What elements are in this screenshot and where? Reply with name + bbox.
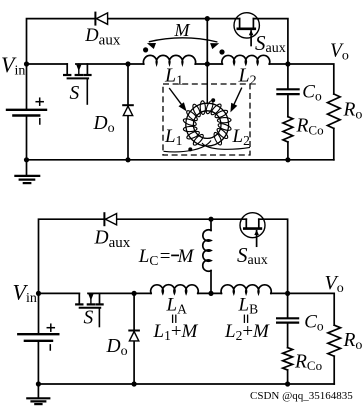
transistor Saux internals top — [238, 19, 255, 46]
switch Saux circle bottom — [240, 213, 265, 238]
wire mid rail S to Do (bottom ckt) — [88, 292, 151, 294]
svg-text:M: M — [174, 20, 191, 40]
dashed box around coupled inductor — [163, 84, 250, 155]
transistor Saux internals bottom — [244, 219, 261, 246]
diode Do top — [123, 64, 133, 160]
inductor LB — [221, 285, 271, 294]
wire top rail right segment down to Vo node — [253, 19, 288, 64]
svg-text:L2+M: L2+M — [224, 321, 270, 343]
svg-text:RCo: RCo — [294, 351, 322, 373]
svg-text:S: S — [84, 307, 94, 328]
toroid winding lead right — [202, 143, 250, 149]
battery Vin source bottom — [18, 324, 58, 384]
arrow from L2 label to toroid — [230, 88, 241, 113]
svg-text:Ro: Ro — [343, 330, 363, 353]
node Do bottom junction bottom ckt — [132, 381, 137, 386]
toroid core with windings — [186, 103, 229, 146]
node Do top junction bottom — [132, 291, 137, 296]
svg-text:S: S — [70, 83, 80, 104]
toroid polarity dot top — [211, 98, 215, 102]
toroid polarity dot bottom-left — [188, 147, 192, 151]
capacitor Co top — [277, 64, 298, 117]
wire between L1 and L2 — [195, 63, 222, 65]
svg-text:=: = — [160, 246, 171, 267]
node Co bottom junction bottom ckt — [285, 381, 290, 386]
ground bottom — [27, 384, 49, 404]
node battery-ground junction bottom — [36, 381, 41, 386]
node Vin junction bottom — [36, 291, 41, 296]
svg-text:Co: Co — [302, 82, 322, 104]
arrow from L1 label to toroid — [169, 88, 186, 111]
svg-text:Daux: Daux — [84, 26, 121, 49]
wire mid rail with inductors L1 L2 (top) — [76, 63, 144, 65]
node Do top junction — [125, 61, 130, 66]
svg-text:Daux: Daux — [94, 228, 131, 252]
wire bottom rail (bottom ckt) — [38, 383, 334, 385]
svg-text:M: M — [177, 246, 195, 267]
svg-text:Vin: Vin — [1, 52, 25, 79]
switch Saux circle top — [234, 13, 259, 38]
wire Vo rail to Ro branch top — [288, 64, 334, 94]
svg-text:Vo: Vo — [330, 41, 349, 64]
mutual inductance arrow M (top) — [147, 38, 219, 49]
svg-text:Vo: Vo — [325, 272, 344, 296]
node LC top junction — [208, 217, 213, 222]
resistor RCo bottom — [283, 348, 293, 384]
svg-text:L1: L1 — [164, 64, 183, 88]
node top-rail riser junction — [205, 16, 210, 21]
svg-text:Do: Do — [93, 113, 115, 136]
svg-text:LA: LA — [166, 294, 188, 316]
svg-text:Do: Do — [106, 336, 128, 359]
inductor LA — [151, 285, 199, 294]
wire top rail left + left riser — [27, 19, 240, 109]
svg-text:L2: L2 — [238, 64, 257, 88]
inductor LC vertical — [203, 219, 211, 293]
toroid winding lead left — [164, 141, 212, 152]
inductor L2 top — [222, 55, 270, 64]
svg-text:RCo: RCo — [296, 116, 324, 138]
node Vo junction bottom — [285, 291, 290, 296]
polarity dot L1 — [143, 47, 148, 52]
svg-text:Co: Co — [304, 311, 324, 333]
svg-text:Ro: Ro — [343, 99, 363, 122]
svg-text:Saux: Saux — [255, 31, 286, 56]
wire bottom rail top-circuit — [27, 159, 334, 161]
inductor L1 top — [143, 55, 195, 64]
diode Do bottom — [129, 293, 139, 384]
node Vin junction — [24, 61, 29, 66]
node battery-ground junction — [24, 157, 29, 162]
polarity dot L2 — [219, 49, 224, 54]
node Vin mid rail left (bottom ckt) — [39, 292, 80, 294]
svg-text:LC: LC — [138, 246, 159, 268]
wire Vo rail to Ro branch bottom — [288, 293, 335, 325]
svg-text:LB: LB — [238, 294, 259, 316]
svg-text:L1: L1 — [164, 126, 182, 148]
diode Daux top — [95, 13, 107, 25]
ground top — [15, 160, 39, 183]
node Do bottom junction — [125, 157, 130, 162]
resistor Ro bottom — [328, 325, 341, 384]
transistor S top — [66, 64, 68, 74]
node L1L2 midpoint junction — [205, 61, 210, 66]
svg-text:CSDN @qq_35164835: CSDN @qq_35164835 — [250, 390, 353, 402]
resistor Ro top — [328, 94, 341, 160]
node LC bottom junction — [208, 291, 213, 296]
wire between LA and LC node — [198, 292, 222, 294]
svg-text:L1+M: L1+M — [153, 321, 199, 343]
node Co bottom junction — [285, 157, 290, 162]
wire LB to Vo node (bottom ckt) — [271, 292, 288, 294]
wire top rail right segment down to Vo node (bottom ckt) — [259, 219, 288, 293]
resistor RCo top — [283, 117, 293, 160]
wire L2 to Vo node — [269, 63, 288, 65]
node Vin top: mid rail left — [27, 63, 68, 65]
svg-text:Saux: Saux — [237, 243, 268, 268]
battery Vin source top — [7, 98, 46, 160]
transistor S bottom — [78, 293, 80, 303]
wire top rail left + left riser (bottom ckt) — [39, 219, 247, 333]
svg-text:Vin: Vin — [13, 279, 37, 306]
svg-text:L2: L2 — [232, 126, 250, 148]
diode Daux bottom — [104, 213, 116, 225]
capacitor Co bottom — [277, 293, 298, 347]
wire center tap down to toroid — [206, 64, 208, 104]
wire riser from top rail to L1L2 midpoint — [206, 19, 208, 64]
node Vo junction — [285, 61, 290, 66]
